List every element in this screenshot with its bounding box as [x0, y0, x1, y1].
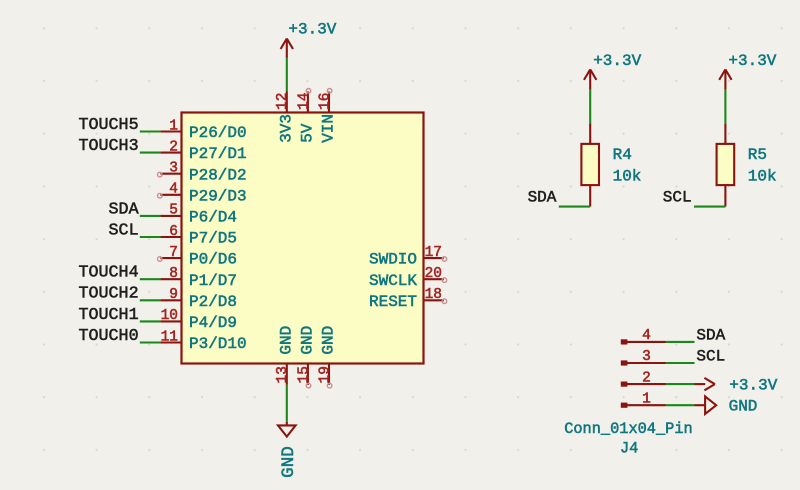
- pin 11 stub: [160, 329, 181, 345]
- power symbol +3.3V (R5): [719, 69, 731, 89]
- svg-text:15: 15: [296, 366, 312, 383]
- pin 14 stub (top): [296, 92, 312, 113]
- wire to pin 11: [140, 341, 161, 343]
- svg-text:16: 16: [317, 93, 333, 110]
- svg-text:3: 3: [642, 349, 651, 365]
- svg-text:2: 2: [169, 139, 178, 155]
- wire to pin 8: [140, 278, 161, 280]
- svg-text:GND: GND: [729, 398, 758, 416]
- pin name RESET: [369, 293, 417, 311]
- power label +3.3V (J4): [729, 377, 777, 395]
- pin 4 stub: [160, 182, 181, 198]
- power symbol +3.3V (top): [281, 39, 293, 58]
- svg-text:TOUCH3: TOUCH3: [79, 137, 139, 156]
- svg-text:+3.3V: +3.3V: [728, 52, 776, 70]
- svg-text:VIN: VIN: [320, 114, 338, 143]
- pin name P26/D0: [189, 124, 247, 142]
- wire to pin 10: [140, 320, 161, 322]
- svg-text:GND: GND: [277, 326, 295, 355]
- pin 5 stub: [160, 203, 181, 219]
- value R5: [748, 146, 777, 185]
- pin name P1/D7: [189, 272, 237, 290]
- pin 13 stub (bottom): [275, 364, 291, 385]
- pin 17 stub (right): [424, 245, 444, 261]
- ground label GND (J4): [729, 398, 758, 416]
- svg-text:Conn_01x04_Pin: Conn_01x04_Pin: [564, 420, 693, 438]
- wire SCL to R5: [694, 206, 725, 208]
- pin 18 stub (right): [424, 287, 444, 303]
- svg-text:P0/D6: P0/D6: [189, 251, 237, 269]
- pin 4 unconnected end: [158, 193, 163, 198]
- pin name P2/D8: [189, 293, 237, 311]
- svg-text:RESET: RESET: [369, 293, 417, 311]
- pin name GND: [320, 326, 338, 355]
- resistor R4: [581, 123, 599, 206]
- pin 15 unconnected end: [306, 383, 311, 388]
- pin name SWCLK: [369, 272, 417, 290]
- svg-text:1: 1: [642, 391, 651, 407]
- resistor R5: [717, 123, 735, 206]
- svg-text:+3.3V: +3.3V: [729, 377, 777, 395]
- pin name SWDIO: [369, 251, 417, 269]
- svg-text:4: 4: [642, 328, 651, 344]
- pin 2 stub: [160, 139, 181, 155]
- svg-text:TOUCH0: TOUCH0: [79, 327, 139, 346]
- svg-text:R5: R5: [748, 146, 767, 164]
- label SDA (R4): [528, 189, 557, 207]
- power symbol +3.3V (R4): [584, 69, 596, 89]
- svg-text:P29/D3: P29/D3: [189, 187, 247, 205]
- pin 14 unconnected end: [306, 89, 311, 94]
- svg-text:18: 18: [425, 287, 442, 303]
- svg-text:+3.3V: +3.3V: [593, 52, 641, 70]
- svg-text:SCL: SCL: [696, 348, 725, 366]
- pin name P7/D5: [189, 230, 237, 248]
- svg-text:+3.3V: +3.3V: [288, 21, 336, 39]
- pin 7 unconnected end: [158, 257, 163, 262]
- pin 19 unconnected end: [327, 383, 332, 388]
- svg-text:GND: GND: [320, 326, 338, 355]
- svg-text:P4/D9: P4/D9: [189, 314, 237, 332]
- wire to pin 6: [140, 236, 161, 238]
- label TOUCH0: [79, 327, 139, 346]
- svg-text:TOUCH1: TOUCH1: [79, 306, 139, 325]
- svg-text:GND: GND: [299, 326, 317, 355]
- label SDA: [109, 200, 139, 219]
- svg-text:SDA: SDA: [696, 327, 725, 345]
- svg-text:P2/D8: P2/D8: [189, 293, 237, 311]
- pin name 5V: [299, 123, 317, 143]
- svg-text:5V: 5V: [299, 123, 317, 143]
- svg-text:14: 14: [296, 93, 312, 110]
- value R4: [613, 146, 642, 185]
- pin name 3V3: [277, 114, 295, 143]
- svg-text:P7/D5: P7/D5: [189, 230, 237, 248]
- pin name P3/D10: [189, 335, 247, 353]
- pin 20 stub (right): [424, 266, 444, 282]
- pin 1 stub: [160, 118, 181, 134]
- pin name VIN: [320, 114, 338, 143]
- pin 9 stub: [160, 287, 181, 303]
- pin 6 stub: [160, 224, 181, 240]
- wire to pin 2: [140, 152, 161, 154]
- power label +3.3V (R4): [593, 52, 641, 70]
- wire +3.3V to pin 12: [286, 58, 288, 92]
- pin 20 unconnected end: [442, 278, 447, 283]
- svg-text:SDA: SDA: [528, 189, 557, 207]
- wire +3.3V to R4: [589, 90, 591, 124]
- svg-text:6: 6: [169, 224, 178, 240]
- wire to pin 5: [140, 215, 161, 217]
- svg-text:SWDIO: SWDIO: [369, 251, 417, 269]
- wire J4 pin 1: [666, 404, 695, 406]
- svg-text:P26/D0: P26/D0: [189, 124, 247, 142]
- svg-text:P27/D1: P27/D1: [189, 145, 247, 163]
- ground symbol GND (J4): [695, 396, 717, 414]
- label TOUCH3: [79, 137, 139, 156]
- IC U1 body: [182, 113, 424, 364]
- pin name GND: [277, 326, 295, 355]
- svg-text:J4: J4: [620, 440, 638, 458]
- svg-text:SCL: SCL: [109, 221, 139, 240]
- pin 3 stub: [160, 161, 181, 177]
- ground symbol GND (bottom): [278, 422, 296, 437]
- label TOUCH1: [79, 306, 139, 325]
- svg-text:SWCLK: SWCLK: [369, 272, 417, 290]
- label TOUCH4: [79, 264, 139, 283]
- ground label GND (bottom): [279, 446, 299, 478]
- svg-text:12: 12: [275, 93, 291, 110]
- wire to pin 9: [140, 299, 161, 301]
- pin 16 stub (top): [317, 92, 333, 113]
- pin 19 stub (bottom): [317, 364, 333, 385]
- wire J4 pin 4: [666, 341, 695, 343]
- pin 15 stub (bottom): [296, 364, 312, 385]
- pin name P27/D1: [189, 145, 247, 163]
- svg-text:20: 20: [425, 266, 442, 282]
- power label +3.3V (top): [288, 21, 336, 39]
- svg-text:3: 3: [169, 161, 178, 177]
- connector J4 pin 3: [621, 349, 666, 365]
- svg-text:R4: R4: [613, 146, 632, 164]
- pin 12 stub (top): [275, 92, 291, 113]
- svg-text:9: 9: [169, 287, 178, 303]
- pin name P28/D2: [189, 166, 247, 184]
- pin 16 unconnected end: [327, 89, 332, 94]
- svg-text:10: 10: [161, 308, 178, 324]
- label SDA (J4): [696, 327, 725, 345]
- pin 18 unconnected end: [442, 299, 447, 304]
- wire +3.3V to R5: [724, 90, 726, 124]
- svg-text:10k: 10k: [613, 167, 642, 185]
- wire SDA to R4: [559, 206, 590, 208]
- wire J4 pin 3: [666, 362, 695, 364]
- svg-text:P1/D7: P1/D7: [189, 272, 237, 290]
- svg-text:TOUCH2: TOUCH2: [79, 285, 139, 304]
- pin 10 stub: [160, 308, 181, 324]
- svg-text:5: 5: [169, 203, 178, 219]
- label TOUCH2: [79, 285, 139, 304]
- wire pin 13 to GND: [286, 385, 288, 422]
- wire J4 pin 2: [666, 383, 695, 385]
- pin name GND: [299, 326, 317, 355]
- power label +3.3V (R5): [728, 52, 776, 70]
- svg-text:P28/D2: P28/D2: [189, 166, 247, 184]
- pin name P6/D4: [189, 209, 237, 227]
- svg-text:10k: 10k: [748, 167, 777, 185]
- svg-text:7: 7: [169, 245, 178, 261]
- label SCL (R5): [663, 189, 692, 207]
- svg-text:TOUCH5: TOUCH5: [79, 116, 139, 135]
- svg-text:11: 11: [161, 329, 178, 345]
- pin 3 unconnected end: [158, 172, 163, 177]
- svg-text:2: 2: [642, 370, 651, 386]
- pin 7 stub: [160, 245, 181, 261]
- svg-text:P3/D10: P3/D10: [189, 335, 247, 353]
- svg-text:1: 1: [169, 118, 178, 134]
- connector J4 pin 4: [621, 328, 666, 344]
- svg-text:4: 4: [169, 182, 178, 198]
- pin 8 stub: [160, 266, 181, 282]
- connector J4 refdes: [620, 440, 638, 458]
- pin name P29/D3: [189, 187, 247, 205]
- svg-text:SDA: SDA: [109, 200, 139, 219]
- svg-text:17: 17: [425, 245, 442, 261]
- label TOUCH5: [79, 116, 139, 135]
- power symbol +3.3V (J4): [695, 378, 715, 390]
- connector J4 name: [564, 420, 693, 438]
- svg-text:19: 19: [317, 366, 333, 383]
- connector J4 pin 1: [621, 391, 666, 407]
- label SCL: [109, 221, 139, 240]
- pin 17 unconnected end: [442, 257, 447, 262]
- label SCL (J4): [696, 348, 725, 366]
- svg-text:GND: GND: [279, 446, 299, 478]
- svg-text:TOUCH4: TOUCH4: [79, 264, 139, 283]
- svg-text:3V3: 3V3: [277, 114, 295, 143]
- svg-text:P6/D4: P6/D4: [189, 209, 237, 227]
- connector J4 pin 2: [621, 370, 666, 386]
- svg-text:8: 8: [169, 266, 178, 282]
- pin name P4/D9: [189, 314, 237, 332]
- svg-text:SCL: SCL: [663, 189, 692, 207]
- pin name P0/D6: [189, 251, 237, 269]
- wire to pin 1: [140, 130, 161, 132]
- svg-text:13: 13: [275, 366, 291, 383]
